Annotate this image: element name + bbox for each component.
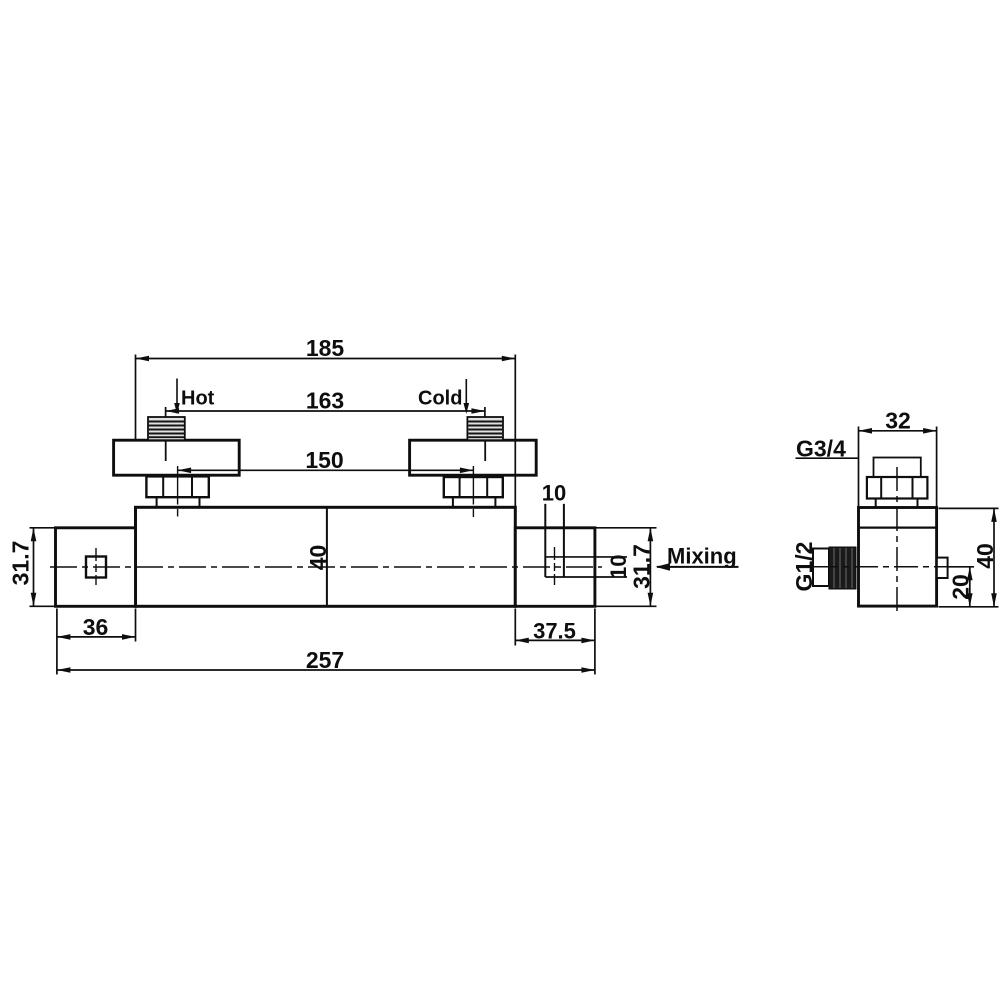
svg-text:32: 32: [885, 408, 911, 434]
side view: top threaded pipe G3/4: [874, 458, 921, 478]
side view: horizontal centerline: [814, 566, 948, 568]
dimension 40 front (rotated): [305, 545, 331, 571]
svg-text:37.5: 37.5: [533, 619, 576, 644]
svg-text:36: 36: [83, 614, 109, 640]
hot label and leader: [174, 379, 214, 415]
svg-text:40: 40: [305, 545, 331, 571]
cold label and leader: [418, 379, 469, 414]
front view: outlet stub vertical centerline: [554, 547, 556, 585]
svg-text:10: 10: [606, 555, 631, 579]
dimension 31.7 right: [595, 528, 657, 607]
front view: cold nut center mark: [472, 466, 474, 517]
side view: G1/2 inlet pipe: [813, 549, 829, 587]
front view: main barrel body: [136, 507, 516, 606]
svg-text:Mixing: Mixing: [667, 544, 737, 569]
dimension 163: [166, 388, 485, 417]
front view: cold nut lower taper: [453, 497, 496, 506]
dimension 37.5: [515, 609, 595, 675]
svg-text:Hot: Hot: [181, 388, 215, 410]
svg-text:31.7: 31.7: [8, 541, 34, 586]
dimension 20 side: [948, 567, 975, 607]
dimension 185: [136, 335, 516, 507]
svg-text:31.7: 31.7: [629, 544, 655, 589]
side view: top hex nut: [867, 477, 928, 499]
front view: cold hex nut: [444, 477, 503, 497]
front view: cold threaded pipe: [467, 417, 503, 440]
dimension 257: [57, 647, 595, 673]
dimension 32: [859, 408, 937, 508]
G1/2 label (rotated): [791, 542, 817, 592]
svg-text:40: 40: [972, 543, 998, 569]
dimension 36: [57, 609, 136, 675]
dimension 150: [178, 447, 474, 473]
svg-text:185: 185: [306, 335, 345, 361]
dimension 10 outlet width: [542, 481, 566, 506]
front view: hot nut lower taper: [157, 497, 200, 506]
svg-text:150: 150: [305, 447, 343, 473]
svg-text:Cold: Cold: [418, 388, 462, 410]
svg-text:257: 257: [306, 647, 344, 673]
front view: right cap outlet stub walls: [545, 504, 627, 577]
side view: nut lower neck: [876, 499, 918, 508]
front view: cold flange plate: [410, 440, 537, 475]
front view: left cap square port: [86, 557, 106, 578]
front view: hot threaded pipe: [148, 417, 185, 440]
G3/4 label and leader: [796, 436, 859, 462]
svg-text:G1/2: G1/2: [791, 542, 817, 592]
mixing label and arrow: [656, 544, 739, 571]
svg-text:10: 10: [542, 481, 566, 506]
svg-text:20: 20: [948, 574, 974, 600]
front view: hot nut center mark: [177, 466, 179, 517]
side view: body block: [859, 508, 937, 607]
side view: G1/2 threaded block: [829, 547, 856, 589]
dimension 40 side: [939, 508, 999, 606]
front view: hot flange plate: [114, 440, 240, 475]
front view: hot hex nut: [146, 476, 208, 497]
side view: right stub: [937, 558, 948, 578]
front view: left square vertical centerline: [95, 548, 97, 585]
svg-text:163: 163: [306, 388, 344, 414]
front view: right end cap: [515, 528, 595, 607]
dimension 10 outlet height (rotated): [606, 555, 631, 579]
front view: left end cap: [56, 528, 136, 607]
dimension 31.7 left: [8, 528, 56, 607]
front view: main horizontal centerline: [50, 566, 602, 568]
side view: vertical centerline: [896, 467, 898, 612]
